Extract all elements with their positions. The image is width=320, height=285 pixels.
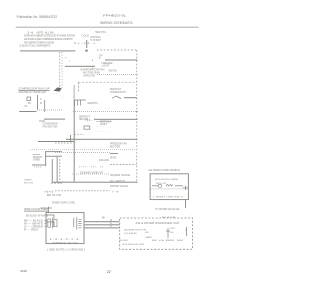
svg-text:COMPRESSOR RUN CAP.: COMPRESSOR RUN CAP. bbox=[19, 87, 51, 90]
relay marks bbox=[25, 99, 43, 108]
svg-text:EVAPORATOR FAN: EVAPORATOR FAN bbox=[81, 68, 105, 71]
wire light row bbox=[105, 60, 137, 61]
wire compressor bottom bbox=[19, 111, 36, 112]
timer wires bbox=[44, 151, 47, 166]
svg-text:SWITCH: SWITCH bbox=[109, 71, 118, 73]
svg-text:THERMOSTAT: THERMOSTAT bbox=[110, 91, 127, 94]
junction cross bbox=[66, 139, 137, 140]
dispenser bottom rows bbox=[119, 240, 186, 246]
svg-text:LIGHT: LIGHT bbox=[102, 66, 111, 68]
svg-text:R G BK W: R G BK W bbox=[152, 240, 186, 242]
wire step bbox=[44, 119, 65, 120]
svg-text:RC: RC bbox=[28, 103, 32, 105]
ice maker inner text bbox=[153, 179, 184, 198]
svg-text:R — RED: R — RED bbox=[24, 230, 38, 232]
svg-text:MOTOR HTR THERM: MOTOR HTR THERM bbox=[155, 179, 178, 181]
wire dashed to right bus bbox=[97, 49, 137, 51]
dotted long wire bbox=[30, 149, 136, 151]
vertical x57 bbox=[56, 157, 59, 182]
dashed wire 143 bbox=[55, 142, 72, 144]
timer note bbox=[24, 180, 33, 185]
defrost timer label bbox=[33, 157, 43, 162]
dotted wire bbox=[37, 109, 63, 111]
svg-text:TIMER: TIMER bbox=[33, 159, 40, 161]
compressor title underlined bbox=[19, 87, 51, 94]
svg-text:TIMER: TIMER bbox=[24, 180, 32, 182]
svg-text:- - - -: - - - - bbox=[50, 93, 61, 95]
svg-text:DEFROST: DEFROST bbox=[88, 103, 99, 105]
ice maker motor circle bbox=[158, 184, 161, 187]
svg-text:W — WHITE: W — WHITE bbox=[24, 224, 44, 226]
thermostat junction dot bbox=[85, 50, 87, 52]
dotted wire 2 bbox=[55, 152, 110, 154]
power cord box bbox=[46, 213, 84, 244]
svg-text:COLD: COLD bbox=[82, 35, 90, 37]
timer verticals bbox=[51, 159, 54, 183]
svg-text:POWER SUPPLY CORD: POWER SUPPLY CORD bbox=[52, 202, 75, 204]
wire top bus L1 bbox=[20, 50, 75, 51]
wire to dispenser 2 bbox=[84, 224, 120, 225]
svg-text:N: N bbox=[74, 42, 76, 45]
svg-text:L1 BLACK TO ALL COMPONENTS: L1 BLACK TO ALL COMPONENTS bbox=[19, 45, 50, 48]
svg-text:TO WATER VALVE SOL.: TO WATER VALVE SOL. bbox=[155, 208, 181, 211]
relay second stem bbox=[43, 100, 46, 112]
wire step lower bbox=[39, 120, 45, 123]
svg-text:WATER VALVE: WATER VALVE bbox=[110, 174, 131, 177]
dashed row 164 bbox=[110, 164, 137, 166]
svg-text:HTR: HTR bbox=[170, 228, 175, 230]
svg-text:BK W OR: BK W OR bbox=[47, 195, 61, 197]
svg-text:BK BLACK W WHITE: BK BLACK W WHITE bbox=[26, 214, 48, 217]
ice maker drop wire bbox=[184, 200, 187, 209]
svg-text:FAN MOTOR: FAN MOTOR bbox=[43, 125, 58, 128]
connector blob bbox=[54, 87, 62, 91]
svg-text:G — GREEN: G — GREEN bbox=[24, 227, 43, 229]
relay box bbox=[27, 97, 31, 101]
dispenser right vertical bbox=[185, 227, 188, 236]
svg-text:G: G bbox=[110, 223, 112, 225]
wire row 141 bbox=[38, 141, 74, 142]
svg-text:-|(-: -|(- bbox=[84, 120, 94, 122]
svg-text:1 SHUT OFF SW 3: 1 SHUT OFF SW 3 bbox=[153, 196, 184, 198]
twisted pair wire right bbox=[61, 52, 63, 88]
svg-text:1 - 4 - 1 - 3 - 1 - 2: 1 - 4 - 1 - 3 - 1 - 2 bbox=[50, 239, 80, 241]
svg-text:MULLION: MULLION bbox=[99, 160, 109, 162]
legend note text block bbox=[19, 31, 75, 47]
dots row bbox=[79, 166, 104, 168]
dashes bbox=[74, 133, 84, 135]
svg-text:AND RELAY OVERLOAD: AND RELAY OVERLOAD bbox=[19, 91, 47, 94]
left main bus vertical bbox=[74, 100, 75, 182]
thermostat T1 stem bbox=[86, 40, 87, 48]
relay stem bbox=[36, 95, 39, 110]
svg-text:ICE MAKER CONNECTOR: ICE MAKER CONNECTOR bbox=[80, 171, 103, 174]
bracket shape bbox=[46, 215, 54, 226]
svg-text:W BK: W BK bbox=[119, 240, 129, 242]
svg-text:TEMP CTRL: TEMP CTRL bbox=[95, 32, 107, 34]
svg-text:MOTOR RUN: MOTOR RUN bbox=[83, 72, 100, 74]
right dashed bus vertical bbox=[136, 50, 138, 183]
wire mid row bbox=[94, 119, 137, 120]
svg-text:LIMIT: LIMIT bbox=[100, 124, 108, 126]
svg-text:M: M bbox=[40, 103, 42, 105]
plug symbol bbox=[45, 218, 58, 229]
header rule bbox=[16, 27, 199, 28]
dotted wire upper bbox=[97, 74, 139, 76]
terminator box bbox=[84, 126, 90, 129]
svg-text:( SEE NOTE ) ( GROUND ): ( SEE NOTE ) ( GROUND ) bbox=[47, 248, 85, 251]
bottom-left legend rows bbox=[24, 220, 44, 232]
dispenser dashed box bbox=[120, 218, 193, 249]
svg-text:FREEZER FAN: FREEZER FAN bbox=[110, 142, 127, 145]
svg-text:1 3 4 2: 1 3 4 2 bbox=[34, 167, 43, 169]
svg-text:CONTROL: CONTROL bbox=[90, 37, 102, 39]
svg-text:+|+|: +|+| bbox=[44, 192, 54, 194]
scatter specks bbox=[62, 93, 112, 133]
wire evaporator row bbox=[65, 66, 95, 67]
svg-text:DEFROST: DEFROST bbox=[110, 89, 122, 91]
svg-text:6210: 6210 bbox=[20, 269, 27, 273]
svg-text:BK: BK bbox=[102, 218, 106, 220]
bus junction dots bbox=[136, 60, 137, 183]
svg-text:T-STAT: T-STAT bbox=[90, 39, 102, 42]
heater row comp label bbox=[110, 89, 127, 94]
dotted mid wire bbox=[73, 111, 138, 113]
mid note bbox=[100, 121, 112, 126]
svg-text:22: 22 bbox=[107, 270, 111, 274]
power box inner text bbox=[50, 239, 80, 245]
svg-text:- -: - - bbox=[96, 126, 105, 128]
thermostat T1 labels bbox=[78, 32, 107, 45]
evaporator labels bbox=[81, 68, 105, 77]
bus upper stub bbox=[73, 85, 76, 100]
connector pins bbox=[74, 217, 82, 229]
svg-text:AUGER MOTOR: AUGER MOTOR bbox=[124, 228, 147, 231]
bottom mid wire bbox=[52, 182, 137, 183]
thermostat comp bbox=[112, 96, 121, 99]
svg-text:CAPACITOR: CAPACITOR bbox=[83, 74, 95, 77]
svg-text:MOTOR: MOTOR bbox=[110, 146, 120, 148]
dispenser inner bbox=[124, 228, 187, 239]
svg-text:LAMP: LAMP bbox=[145, 236, 153, 239]
svg-text:- - -: - - - bbox=[96, 131, 109, 133]
svg-text:SOLENOID: SOLENOID bbox=[124, 233, 137, 235]
svg-text:WIRE COLOR CODE: WIRE COLOR CODE bbox=[24, 208, 48, 211]
compressor notes bbox=[43, 124, 58, 129]
svg-text:WATER VALVE: WATER VALVE bbox=[110, 185, 129, 188]
svg-text:Publication No. 5995543732: Publication No. 5995543732 bbox=[17, 15, 58, 19]
wire to dispenser 1 bbox=[84, 221, 120, 222]
wire labels bbox=[102, 218, 113, 228]
wire heater row bbox=[124, 97, 137, 98]
dispenser inner line bbox=[166, 228, 170, 238]
ground stub wire bbox=[47, 207, 50, 213]
ice maker box bbox=[150, 174, 188, 200]
row labels bbox=[80, 171, 131, 188]
light labels bbox=[92, 61, 117, 73]
dotted row 174 bbox=[72, 173, 110, 175]
svg-text:SOLENOID SW: SOLENOID SW bbox=[122, 244, 145, 246]
labels above power box bbox=[40, 192, 121, 210]
svg-text:+ - L 1 - +: + - L 1 - + bbox=[78, 43, 97, 45]
twisted pair wire left bbox=[59, 52, 61, 88]
ice maker inner wire bbox=[152, 184, 158, 187]
svg-text:WIRING SCHEMATIC: WIRING SCHEMATIC bbox=[100, 21, 134, 25]
dashed row 190 bbox=[55, 190, 110, 192]
ice maker heater zigzag bbox=[166, 184, 173, 186]
defrost heater comp bbox=[75, 100, 87, 106]
ice maker dotted line bbox=[151, 188, 188, 190]
svg-text:MOTOR: MOTOR bbox=[24, 182, 33, 184]
dashed partition corner bbox=[78, 81, 136, 83]
svg-text:BK — BLACK: BK — BLACK bbox=[24, 220, 44, 223]
svg-text:TERMINAL BLOCK: TERMINAL BLOCK bbox=[52, 242, 79, 245]
svg-text:ICE & WATER DISPENSER UNIT: ICE & WATER DISPENSER UNIT bbox=[136, 222, 181, 225]
wire mid stub bbox=[96, 120, 112, 123]
ice maker junction bbox=[183, 186, 189, 191]
wire to dispenser 3 bbox=[84, 227, 120, 228]
mid labels bbox=[79, 117, 91, 122]
svg-text:HEATER: HEATER bbox=[110, 156, 117, 159]
svg-text:ICE MAKER (SOME MODELS): ICE MAKER (SOME MODELS) bbox=[148, 169, 180, 172]
svg-text:FPHB23-SL: FPHB23-SL bbox=[103, 13, 127, 17]
svg-text:CONDENSER: CONDENSER bbox=[43, 124, 58, 126]
svg-text:BK W OR: BK W OR bbox=[162, 217, 176, 219]
